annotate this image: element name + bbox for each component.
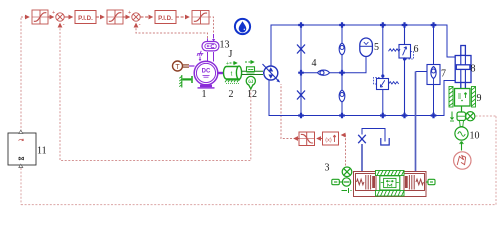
variable displacement pump xyxy=(263,64,280,82)
torque sensor T xyxy=(173,61,195,71)
wire PID2 to S3 xyxy=(176,16,189,18)
svg-text:4: 4 xyxy=(312,58,317,69)
wire SJ1 to PID1 xyxy=(65,16,73,18)
ground electric small xyxy=(197,51,203,62)
summing junction SJ1 xyxy=(52,10,65,28)
flow control branch line xyxy=(433,25,435,65)
spool hatched sleeve top xyxy=(376,171,405,176)
check valve bottom xyxy=(339,90,345,102)
svg-text:+: + xyxy=(52,10,55,16)
gain block x xyxy=(323,132,339,145)
saturation block S2 xyxy=(107,10,123,24)
mass with friction 9 xyxy=(449,87,476,108)
pilot check valve 4 xyxy=(318,70,330,75)
right solenoid section xyxy=(404,174,425,191)
mechanical wall ground motor casing xyxy=(179,75,192,88)
relief valve lower xyxy=(374,78,399,90)
wire valve port A to tank orifice xyxy=(358,129,389,172)
svg-text:+: + xyxy=(226,61,229,67)
sensor marks below xyxy=(342,188,353,193)
wire controller box 11 output up to chain input xyxy=(20,17,22,132)
feedback wire from H-bridge current to SJ2 minus input xyxy=(136,24,208,39)
fluid properties icon xyxy=(235,19,250,34)
svg-text:7: 7 xyxy=(441,69,446,80)
check valve top xyxy=(339,43,345,55)
tank symbol xyxy=(381,138,389,145)
feedback frame wire bottom xyxy=(21,204,496,206)
speed arrow over sensor xyxy=(245,61,254,63)
force coupler xyxy=(457,112,466,121)
speed sensor clamp 12 xyxy=(247,67,255,73)
relief valve branch line xyxy=(382,25,384,79)
wire box 11 bottom to feedback frame xyxy=(20,168,22,205)
svg-text:2: 2 xyxy=(229,89,234,100)
wire multiplier to S4 xyxy=(317,138,323,140)
force arrow up xyxy=(460,142,464,151)
speed sensor balloon w xyxy=(246,76,255,89)
wire PID1 to S2 xyxy=(96,16,104,18)
supply line top bus xyxy=(271,25,456,66)
rod mass to force elements xyxy=(461,106,463,112)
saturation block S3 xyxy=(192,11,209,25)
relief valve 6 xyxy=(389,25,414,116)
servovalve ground circle xyxy=(342,178,350,186)
H-bridge converter 13 xyxy=(202,38,219,51)
svg-text:T: T xyxy=(175,64,180,71)
junction dots top bus xyxy=(298,22,436,28)
svg-text:-: - xyxy=(63,22,65,28)
svg-text:(x): (x) xyxy=(325,137,332,143)
svg-text:ω: ω xyxy=(248,78,253,85)
svg-text:3: 3 xyxy=(325,163,330,174)
svg-text:11: 11 xyxy=(37,146,47,157)
accumulator 5 xyxy=(360,38,373,57)
return line bottom bus xyxy=(269,81,456,116)
junction dots middle xyxy=(298,70,345,76)
middle branch line xyxy=(301,57,366,73)
left solenoid section xyxy=(356,174,377,191)
hydraulic cylinder 8 xyxy=(455,46,471,90)
junction dot pilot xyxy=(381,74,384,77)
svg-text:1: 1 xyxy=(202,89,207,100)
connector square left xyxy=(332,179,343,184)
feedback frame wire right xyxy=(495,116,497,205)
controller interface box 11 xyxy=(8,130,36,167)
svg-text:-: - xyxy=(139,22,141,28)
wires H-bridge to DC motor xyxy=(208,52,214,62)
shaft motor to coupling xyxy=(218,72,225,74)
svg-text:J: J xyxy=(229,49,233,60)
svg-text:10: 10 xyxy=(470,131,480,142)
PID controller block PID2 xyxy=(155,11,176,24)
velocity indicator arrow xyxy=(450,112,454,122)
flow control valve 7 xyxy=(427,65,440,85)
svg-text:P.I.D.: P.I.D. xyxy=(78,15,93,22)
wire valve command tap to gain block xyxy=(342,135,346,166)
wire flow control to valve port B xyxy=(416,71,428,73)
servovalve body outline xyxy=(354,172,427,197)
DC motor 1 xyxy=(194,61,218,88)
feedback wire speed sensor to SJ1 minus input xyxy=(60,24,251,161)
shaft coupling to pump xyxy=(242,71,264,74)
svg-text:5: 5 xyxy=(374,42,379,53)
svg-text:P.I.D.: P.I.D. xyxy=(158,15,173,22)
rotary load coupling 2 xyxy=(223,66,241,83)
check valve branch line xyxy=(341,25,343,116)
connector square right xyxy=(426,179,435,184)
orifice branch line xyxy=(300,25,302,116)
spool hatched sleeve bottom xyxy=(376,191,405,197)
svg-text:+: + xyxy=(128,10,131,16)
summing junction SJ2 xyxy=(128,10,141,28)
orifice bottom xyxy=(297,91,305,100)
wire setpoint into saturation S1 xyxy=(21,16,29,18)
wire position transducer to frame xyxy=(476,115,497,117)
PID controller block PID1 xyxy=(75,11,96,24)
svg-text:9: 9 xyxy=(477,93,482,104)
position transducer multiplier xyxy=(466,112,475,121)
svg-text:12: 12 xyxy=(247,89,257,100)
wire SJ2 to PID2 xyxy=(141,16,153,18)
spool center section xyxy=(380,176,400,190)
svg-text:DC: DC xyxy=(202,69,211,75)
wire S2 to sum junction SJ2 xyxy=(123,16,130,18)
saturation block S4 pump control xyxy=(294,132,315,146)
servovalve input gain circle xyxy=(342,167,352,177)
pump displacement control wire xyxy=(281,84,292,139)
svg-text:6: 6 xyxy=(414,44,419,55)
junction dots bottom bus xyxy=(298,113,436,119)
force function generator xyxy=(454,152,471,169)
force sensor 10 xyxy=(455,121,468,141)
wire S3 output down to H-bridge 13 xyxy=(209,17,214,38)
speed arrow over coupling xyxy=(226,61,237,67)
svg-text:8: 8 xyxy=(471,64,476,75)
orifice top xyxy=(297,45,305,54)
saturation block S1 xyxy=(32,10,48,24)
wire S1 to sum junction xyxy=(48,16,54,18)
